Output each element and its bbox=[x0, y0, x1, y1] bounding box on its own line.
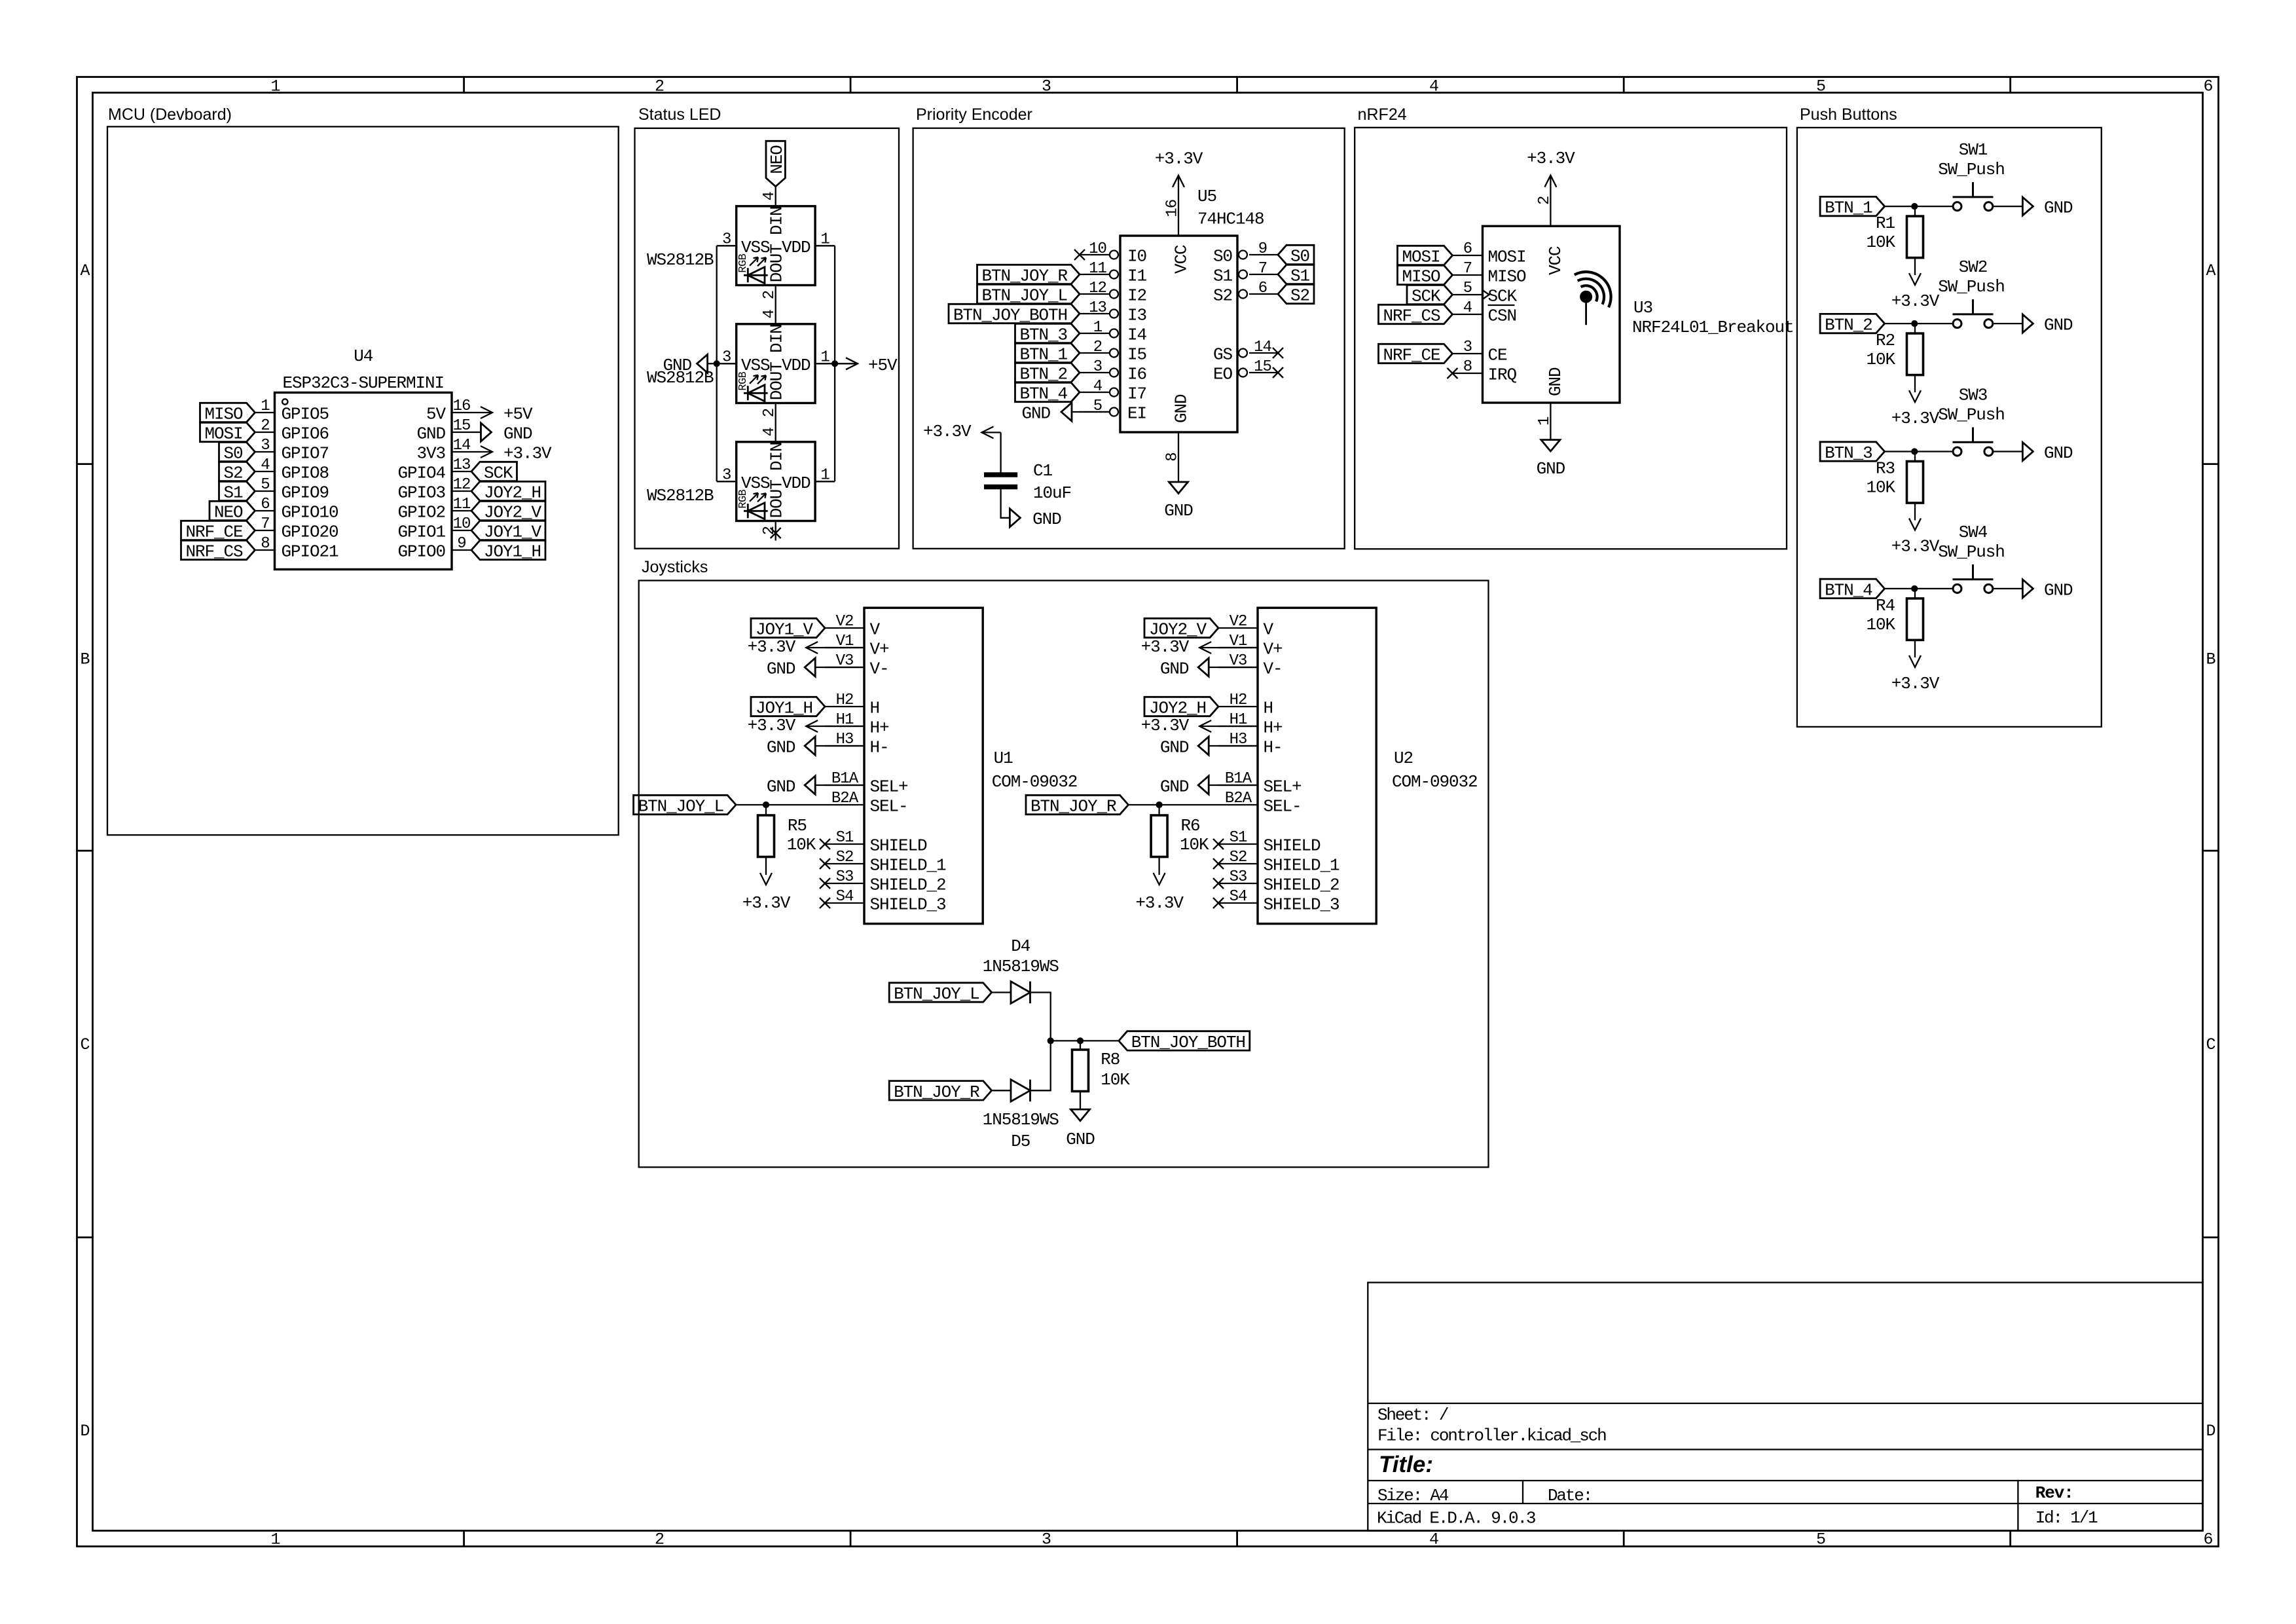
U1 pin V2 V bbox=[825, 627, 864, 629]
svg-text:H+: H+ bbox=[870, 718, 890, 738]
svg-text:GND: GND bbox=[1066, 1130, 1095, 1149]
wire D5 to junction bbox=[1030, 1041, 1051, 1090]
svg-text:3: 3 bbox=[722, 466, 731, 484]
svg-text:6: 6 bbox=[1463, 240, 1472, 258]
LED D3 pin 2 DOUT bbox=[775, 521, 776, 541]
svg-text:+3.3V: +3.3V bbox=[1135, 893, 1184, 913]
svg-text:+3.3V: +3.3V bbox=[1891, 291, 1940, 311]
U1 pin B2A SEL- bbox=[825, 804, 864, 805]
svg-text:10K: 10K bbox=[1866, 232, 1895, 252]
resistor R4 bbox=[1914, 589, 1916, 599]
svg-text:GPIO20: GPIO20 bbox=[282, 523, 338, 542]
svg-text:EI: EI bbox=[1127, 404, 1146, 424]
svg-text:File: controller.kicad_sch: File: controller.kicad_sch bbox=[1377, 1426, 1606, 1446]
svg-text:6: 6 bbox=[261, 496, 269, 513]
svg-text:12: 12 bbox=[453, 476, 471, 494]
title block outline bbox=[1368, 1283, 2202, 1531]
U1 pin V1 V+ bbox=[825, 647, 864, 648]
svg-text:V+: V+ bbox=[1264, 640, 1283, 659]
power +3.3V below R2 bbox=[1909, 390, 1921, 402]
LED D2 WS2812B body bbox=[737, 324, 815, 403]
svg-text:GND: GND bbox=[1546, 367, 1565, 396]
wire BTN_JOY_L to U1 SEL- bbox=[736, 804, 825, 805]
svg-text:+3.3V: +3.3V bbox=[1527, 149, 1575, 168]
svg-text:S0: S0 bbox=[223, 444, 242, 464]
svg-text:V: V bbox=[870, 620, 881, 640]
svg-text:BTN_1: BTN_1 bbox=[1825, 198, 1872, 218]
svg-text:10K: 10K bbox=[1866, 478, 1895, 498]
net label NRF_CE bbox=[181, 521, 255, 540]
junction BTN_2 bbox=[1911, 320, 1918, 327]
net label BTN_2 bbox=[1015, 363, 1080, 382]
svg-text:BTN_JOY_R: BTN_JOY_R bbox=[1030, 797, 1116, 817]
svg-text:1: 1 bbox=[1536, 416, 1554, 426]
net label BTN_JOY_L bbox=[634, 795, 737, 814]
LED D2 pin 4 DIN bbox=[775, 304, 776, 324]
svg-text:NRF_CS: NRF_CS bbox=[1383, 306, 1440, 326]
net label MISO bbox=[200, 403, 255, 422]
ground GND at SW3 bbox=[2022, 443, 2033, 461]
svg-text:S1: S1 bbox=[1230, 829, 1247, 847]
U3 pin 7 MISO bbox=[1453, 274, 1483, 276]
svg-text:C: C bbox=[2206, 1035, 2215, 1054]
op-amp U2 COM-09032 body bbox=[1258, 608, 1376, 923]
ground GND at SW2 bbox=[2022, 314, 2033, 333]
U2 pin S2 SHIELD_1 bbox=[1218, 863, 1258, 864]
svg-text:BTN_JOY_R: BTN_JOY_R bbox=[894, 1082, 979, 1102]
U1 pin S3 SHIELD_2 bbox=[825, 883, 864, 884]
svg-text:1N5819WS: 1N5819WS bbox=[983, 1110, 1059, 1130]
wire BTN_3 to switch bbox=[1885, 451, 1953, 452]
svg-text:MCU (Devboard): MCU (Devboard) bbox=[108, 105, 232, 124]
ground GND at U5 EI bbox=[1072, 411, 1110, 413]
CSN overline bbox=[1488, 304, 1515, 306]
svg-text:BTN_JOY_L: BTN_JOY_L bbox=[894, 984, 979, 1004]
ground GND below R8 bbox=[1071, 1109, 1090, 1121]
svg-text:+3.3V: +3.3V bbox=[748, 637, 796, 657]
U5 pin 6 S2 bbox=[1249, 293, 1278, 295]
svg-text:5: 5 bbox=[1463, 280, 1472, 297]
svg-text:H: H bbox=[870, 699, 880, 718]
power +3.3V at U2 row 1109 bbox=[1199, 726, 1258, 727]
net label S0 bbox=[1278, 245, 1314, 264]
svg-text:H-: H- bbox=[870, 738, 889, 758]
svg-text:BTN_4: BTN_4 bbox=[1825, 580, 1872, 600]
net label S2 bbox=[1278, 284, 1314, 303]
U4 pin 9 GPIO0 bbox=[452, 549, 471, 551]
svg-text:6: 6 bbox=[2203, 77, 2212, 96]
svg-text:GND: GND bbox=[767, 659, 795, 679]
LED D1 pin 4 DIN bbox=[775, 187, 776, 206]
svg-text:2: 2 bbox=[261, 417, 269, 435]
svg-text:+3.3V: +3.3V bbox=[923, 422, 972, 441]
diode D5 1N5819WS bbox=[1011, 1080, 1030, 1102]
svg-text:GND: GND bbox=[416, 424, 445, 444]
svg-text:2: 2 bbox=[761, 409, 778, 417]
power +3.3V at U2 row 989 bbox=[1199, 647, 1258, 648]
LED D3 pin 1 VDD bbox=[815, 481, 835, 482]
ground GND at U1 row 1199 bbox=[815, 784, 864, 786]
wire SW4 to gnd bbox=[1993, 588, 2023, 589]
svg-text:7: 7 bbox=[261, 515, 269, 533]
junction VDD bus bbox=[831, 360, 838, 367]
svg-text:GND: GND bbox=[767, 738, 795, 758]
U1 pin S2 SHIELD_1 bbox=[825, 863, 864, 864]
svg-text:4: 4 bbox=[761, 428, 778, 437]
net label S2 bbox=[219, 462, 255, 481]
svg-text:GND: GND bbox=[767, 777, 795, 797]
svg-text:R2: R2 bbox=[1876, 331, 1895, 350]
svg-text:R4: R4 bbox=[1876, 596, 1895, 616]
LED D1 pin 2 DOUT bbox=[775, 286, 776, 305]
svg-text:10uF: 10uF bbox=[1033, 483, 1071, 503]
svg-text:MISO: MISO bbox=[1402, 267, 1440, 287]
no-connect U5 I0 bbox=[1074, 249, 1085, 260]
svg-text:SW4: SW4 bbox=[1959, 523, 1988, 542]
switch SW1 SW_Push bbox=[1953, 202, 1961, 211]
svg-text:2: 2 bbox=[761, 291, 778, 299]
U2 pin S3 SHIELD_2 bbox=[1218, 883, 1258, 884]
svg-text:DOUT: DOUT bbox=[767, 362, 787, 401]
svg-text:S2: S2 bbox=[1290, 286, 1309, 306]
svg-text:GPIO10: GPIO10 bbox=[282, 503, 338, 523]
resistor R3 bbox=[1914, 452, 1916, 462]
svg-text:2: 2 bbox=[1536, 196, 1554, 205]
U5 pin 16 VCC / power +3.3V bbox=[1178, 175, 1179, 236]
svg-text:Title:: Title: bbox=[1379, 1452, 1433, 1477]
svg-text:JOY2_H: JOY2_H bbox=[1149, 699, 1206, 718]
U1 pin H3 H- bbox=[825, 745, 864, 747]
svg-text:GND: GND bbox=[503, 424, 532, 444]
svg-text:GPIO9: GPIO9 bbox=[282, 483, 329, 503]
net label JOY2_V bbox=[471, 501, 545, 520]
svg-text:A: A bbox=[2206, 261, 2215, 280]
svg-text:I6: I6 bbox=[1127, 365, 1146, 384]
svg-text:1: 1 bbox=[820, 466, 829, 484]
svg-text:15: 15 bbox=[1254, 358, 1271, 376]
svg-text:1: 1 bbox=[820, 231, 829, 248]
junction R6 bbox=[1156, 802, 1163, 808]
svg-text:NRF24L01_Breakout: NRF24L01_Breakout bbox=[1632, 318, 1794, 337]
svg-text:NEO: NEO bbox=[767, 145, 787, 174]
resistor R1 bbox=[1914, 206, 1916, 216]
svg-text:JOY2_V: JOY2_V bbox=[1149, 620, 1207, 640]
svg-text:NEO: NEO bbox=[214, 503, 243, 523]
U4 pin 16 5V bbox=[452, 412, 471, 413]
svg-text:10K: 10K bbox=[1101, 1070, 1130, 1090]
net label NRF_CE bbox=[1379, 344, 1453, 363]
svg-text:9: 9 bbox=[457, 535, 465, 553]
LED D2 pin 2 DOUT bbox=[775, 403, 776, 423]
svg-text:S0: S0 bbox=[1290, 247, 1309, 267]
svg-text:C: C bbox=[80, 1035, 89, 1054]
svg-text:S2: S2 bbox=[1213, 286, 1232, 306]
svg-text:WS2812B: WS2812B bbox=[647, 250, 714, 270]
svg-text:WS2812B: WS2812B bbox=[647, 486, 714, 506]
svg-text:3: 3 bbox=[1463, 339, 1472, 356]
svg-text:3: 3 bbox=[1042, 77, 1051, 96]
svg-text:14: 14 bbox=[1254, 339, 1271, 356]
svg-text:GPIO21: GPIO21 bbox=[282, 542, 339, 562]
switch SW3 SW_Push bbox=[1953, 447, 1961, 456]
svg-text:Joysticks: Joysticks bbox=[642, 558, 708, 576]
svg-text:H: H bbox=[1264, 699, 1273, 718]
svg-text:8: 8 bbox=[1463, 358, 1472, 376]
svg-text:SHIELD_2: SHIELD_2 bbox=[870, 876, 946, 895]
svg-text:7: 7 bbox=[1258, 260, 1267, 278]
svg-text:3: 3 bbox=[722, 348, 731, 366]
op-amp U1 COM-09032 body bbox=[864, 608, 983, 923]
svg-text:SEL+: SEL+ bbox=[870, 777, 909, 797]
svg-text:V2: V2 bbox=[836, 613, 854, 631]
svg-text:+3.3V: +3.3V bbox=[1891, 409, 1940, 428]
U4 pin 5 GPIO9 bbox=[255, 490, 275, 492]
svg-text:BTN_3: BTN_3 bbox=[1019, 325, 1067, 345]
svg-text:D: D bbox=[2206, 1422, 2215, 1441]
svg-text:BTN_JOY_BOTH: BTN_JOY_BOTH bbox=[1131, 1033, 1245, 1052]
svg-text:CSN: CSN bbox=[1488, 306, 1517, 326]
U4 pin 13 GPIO4 bbox=[452, 471, 471, 472]
svg-text:GPIO1: GPIO1 bbox=[397, 523, 445, 542]
svg-text:B2A: B2A bbox=[1225, 790, 1252, 807]
svg-text:SHIELD: SHIELD bbox=[1264, 836, 1321, 856]
svg-text:SW_Push: SW_Push bbox=[1938, 542, 2005, 562]
wire VSS bus bbox=[716, 246, 718, 481]
svg-text:4: 4 bbox=[761, 310, 778, 319]
U5 pin 4 I7 bbox=[1080, 392, 1110, 393]
net label BTN_3 bbox=[1820, 442, 1885, 461]
svg-text:3V3: 3V3 bbox=[416, 444, 445, 464]
svg-text:BTN_JOY_L: BTN_JOY_L bbox=[981, 286, 1067, 306]
svg-text:2: 2 bbox=[655, 77, 664, 96]
svg-text:BTN_2: BTN_2 bbox=[1825, 316, 1872, 335]
net label BTN_3 bbox=[1015, 323, 1080, 342]
wire VDD bus bbox=[834, 246, 835, 481]
LED D3 diode symbol bbox=[744, 503, 768, 519]
ground GND at SW4 bbox=[2022, 580, 2033, 598]
svg-text:S1: S1 bbox=[1213, 267, 1233, 286]
svg-text:+3.3V: +3.3V bbox=[742, 893, 791, 913]
svg-text:I0: I0 bbox=[1127, 247, 1146, 267]
op-amp U5 74HC148 body bbox=[1120, 236, 1237, 432]
svg-text:SEL-: SEL- bbox=[870, 797, 908, 817]
U4 pin 3 GPIO7 bbox=[255, 451, 275, 452]
U2 pin B1A SEL+ bbox=[1218, 784, 1258, 786]
LED D2 pin 1 VDD bbox=[815, 363, 835, 364]
ground GND at U1 row 1019 bbox=[815, 667, 864, 668]
ground GND at U1 row 1139 bbox=[815, 745, 864, 747]
svg-text:GND: GND bbox=[1160, 659, 1189, 679]
svg-text:S2: S2 bbox=[1230, 849, 1247, 866]
svg-text:B: B bbox=[2206, 650, 2215, 669]
svg-text:S3: S3 bbox=[836, 868, 854, 886]
svg-text:S1: S1 bbox=[836, 829, 854, 847]
svg-text:+5V: +5V bbox=[503, 405, 533, 424]
svg-text:S0: S0 bbox=[1213, 247, 1232, 267]
svg-text:GPIO7: GPIO7 bbox=[282, 444, 329, 464]
svg-text:JOY1_H: JOY1_H bbox=[756, 699, 812, 718]
U4 pin 12 GPIO3 bbox=[452, 490, 471, 492]
wire C1 to gnd bbox=[1001, 489, 1010, 518]
svg-text:+3.3V: +3.3V bbox=[1155, 149, 1203, 168]
svg-text:Priority Encoder: Priority Encoder bbox=[916, 105, 1032, 124]
wire SW3 to gnd bbox=[1993, 451, 2023, 452]
U2 pin V3 V- bbox=[1218, 667, 1258, 668]
junction BTN_4 bbox=[1911, 585, 1918, 592]
svg-text:H-: H- bbox=[1264, 738, 1283, 758]
svg-text:74HC148: 74HC148 bbox=[1197, 210, 1264, 229]
svg-text:GND: GND bbox=[663, 356, 691, 375]
net label JOY2_H bbox=[471, 481, 545, 500]
power +3.3V at C1 bbox=[982, 432, 1001, 433]
net label JOY1_V bbox=[471, 521, 545, 540]
svg-text:NRF_CS: NRF_CS bbox=[185, 542, 243, 562]
ground GND at LED bus bbox=[708, 363, 717, 364]
svg-text:15: 15 bbox=[453, 417, 471, 435]
net label NEO bbox=[210, 501, 255, 520]
resistor R2 bbox=[1914, 323, 1916, 333]
svg-text:+3.3V: +3.3V bbox=[1891, 674, 1940, 693]
U5 pin 2 I5 bbox=[1080, 352, 1110, 354]
svg-text:U5: U5 bbox=[1197, 187, 1216, 206]
svg-text:SHIELD_3: SHIELD_3 bbox=[1264, 895, 1339, 915]
svg-text:DOUT: DOUT bbox=[767, 480, 787, 519]
U4 pin 11 GPIO2 bbox=[452, 510, 471, 511]
svg-text:JOY2_V: JOY2_V bbox=[484, 503, 542, 523]
diode D4 1N5819WS bbox=[1011, 982, 1030, 1004]
power +3.3V below R4 bbox=[1909, 655, 1921, 667]
svg-text:+3.3V: +3.3V bbox=[1141, 716, 1190, 735]
svg-text:4: 4 bbox=[261, 456, 270, 474]
svg-text:BTN_1: BTN_1 bbox=[1019, 345, 1067, 365]
U3 antenna symbol bbox=[1580, 291, 1592, 303]
svg-text:4: 4 bbox=[1429, 1530, 1438, 1549]
svg-text:5: 5 bbox=[1816, 77, 1825, 96]
svg-text:10K: 10K bbox=[1180, 835, 1209, 855]
wire to D4 bbox=[992, 991, 1011, 993]
svg-text:11: 11 bbox=[453, 496, 471, 513]
svg-text:2: 2 bbox=[655, 1530, 664, 1549]
svg-text:NRF_CE: NRF_CE bbox=[1383, 346, 1440, 365]
svg-text:JOY1_H: JOY1_H bbox=[484, 542, 541, 562]
U5 pin 7 S1 bbox=[1249, 274, 1278, 275]
svg-text:I4: I4 bbox=[1127, 325, 1147, 345]
svg-text:GND: GND bbox=[1172, 394, 1192, 423]
U4 pin 1 GPIO5 bbox=[255, 412, 275, 413]
svg-text:S2: S2 bbox=[223, 464, 242, 483]
svg-text:DIN: DIN bbox=[767, 324, 787, 353]
wire junction to BTN_JOY_BOTH bbox=[1051, 1040, 1119, 1041]
svg-text:SEL-: SEL- bbox=[1264, 797, 1302, 817]
svg-text:Rev:: Rev: bbox=[2035, 1483, 2073, 1503]
U4 pin 6 GPIO10 bbox=[255, 510, 275, 511]
LED D2 pin 3 VSS bbox=[717, 363, 737, 364]
svg-text:GND: GND bbox=[1164, 501, 1193, 521]
svg-text:RGB: RGB bbox=[737, 253, 750, 272]
svg-text:BTN_3: BTN_3 bbox=[1825, 443, 1872, 463]
svg-text:3: 3 bbox=[261, 437, 269, 454]
U3 pin 4 CSN bbox=[1453, 314, 1483, 315]
no-connect U5 EO bbox=[1273, 367, 1283, 378]
svg-text:SW2: SW2 bbox=[1959, 257, 1988, 277]
svg-text:GND: GND bbox=[2044, 443, 2073, 463]
svg-text:5V: 5V bbox=[426, 405, 446, 424]
LED D2 diode symbol bbox=[744, 385, 768, 401]
svg-text:4: 4 bbox=[1093, 378, 1102, 396]
net label BTN_2 bbox=[1820, 314, 1885, 333]
svg-text:U2: U2 bbox=[1394, 748, 1413, 768]
U4 pin 15 GND bbox=[452, 432, 471, 433]
svg-text:GPIO6: GPIO6 bbox=[282, 424, 329, 444]
svg-text:VCC: VCC bbox=[1546, 246, 1565, 275]
net label BTN_4 bbox=[1820, 579, 1885, 598]
svg-text:Status LED: Status LED bbox=[638, 105, 721, 124]
svg-text:COM-09032: COM-09032 bbox=[1392, 772, 1478, 792]
U5 pin 15 EO bbox=[1249, 372, 1278, 373]
svg-text:B: B bbox=[80, 650, 90, 669]
U3 pin 2 VCC / power +3.3V bbox=[1550, 175, 1551, 227]
svg-text:4: 4 bbox=[1463, 299, 1472, 317]
svg-text:S3: S3 bbox=[1230, 868, 1247, 886]
wire D4 to junction bbox=[1030, 993, 1051, 1041]
svg-text:6: 6 bbox=[1258, 280, 1267, 297]
power +3.3V at U1 row 989 bbox=[806, 647, 864, 648]
net label S1 bbox=[1278, 265, 1314, 284]
no-connect U2 shield row 1289 bbox=[1213, 839, 1224, 849]
svg-text:SCK: SCK bbox=[484, 464, 513, 483]
junction BTN_3 bbox=[1911, 448, 1918, 454]
svg-text:10K: 10K bbox=[1866, 350, 1895, 369]
svg-text:SW1: SW1 bbox=[1959, 140, 1988, 160]
svg-text:U1: U1 bbox=[994, 748, 1013, 768]
svg-text:GND: GND bbox=[2044, 580, 2073, 600]
svg-text:S1: S1 bbox=[223, 483, 243, 503]
svg-text:I1: I1 bbox=[1127, 267, 1147, 286]
svg-text:JOY1_V: JOY1_V bbox=[756, 620, 814, 640]
net label BTN_JOY_R (diode) bbox=[889, 1081, 992, 1100]
svg-text:13: 13 bbox=[453, 456, 471, 474]
wire SW1 to gnd bbox=[1993, 206, 2023, 207]
power +3.3V at U4 pin 14 bbox=[471, 451, 492, 452]
svg-text:BTN_4: BTN_4 bbox=[1019, 384, 1067, 404]
svg-text:D4: D4 bbox=[1011, 936, 1030, 956]
junction R5 bbox=[763, 802, 769, 808]
svg-text:I7: I7 bbox=[1127, 384, 1146, 404]
U4 pin 7 GPIO20 bbox=[255, 530, 275, 531]
U3 pin 3 CE bbox=[1453, 353, 1483, 354]
svg-text:MISO: MISO bbox=[204, 405, 243, 424]
U4 pin 14 3V3 bbox=[452, 451, 471, 452]
U1 pin V3 V- bbox=[825, 667, 864, 668]
svg-text:I3: I3 bbox=[1127, 306, 1146, 325]
svg-text:1: 1 bbox=[820, 348, 829, 366]
junction node R8 top bbox=[1077, 1037, 1084, 1044]
svg-text:S1: S1 bbox=[1290, 267, 1310, 286]
power +5V at U4 pin 16 bbox=[471, 412, 492, 413]
U5 pin 8 GND / ground bbox=[1178, 432, 1179, 482]
svg-text:4: 4 bbox=[761, 192, 778, 201]
net label JOY1_V bbox=[751, 618, 825, 637]
section box Status LED bbox=[635, 128, 900, 549]
svg-text:R6: R6 bbox=[1181, 816, 1200, 836]
svg-text:D: D bbox=[80, 1422, 89, 1441]
net label NRF_CS bbox=[1379, 304, 1453, 323]
resistor R8 bbox=[1080, 1041, 1081, 1050]
ground GND at SW1 bbox=[2022, 197, 2033, 215]
svg-text:12: 12 bbox=[1089, 280, 1106, 297]
junction node diode OR bbox=[1048, 1037, 1054, 1044]
svg-text:+3.3V: +3.3V bbox=[1891, 537, 1940, 557]
